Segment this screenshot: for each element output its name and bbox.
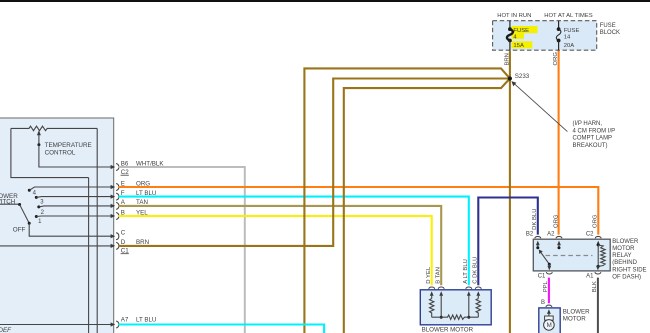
svg-text:FUSE: FUSE — [564, 28, 580, 34]
svg-text:COMPT LAMP: COMPT LAMP — [573, 136, 613, 142]
motor brush cap — [545, 316, 554, 320]
svg-text:BLOCK: BLOCK — [600, 30, 620, 36]
relay switch arm with arrow — [540, 252, 549, 265]
resistor bus with middle element — [432, 315, 479, 319]
wire TAN from A to resistor pin B — [118, 206, 441, 285]
connector name C2 — [121, 169, 130, 176]
svg-text:M: M — [547, 322, 552, 329]
relay pin C1 — [538, 264, 553, 279]
svg-text:C2: C2 — [586, 232, 594, 238]
svg-text:A2: A2 — [547, 232, 555, 238]
HVAC control assembly box — [0, 118, 114, 333]
wire position 4 to pin E — [29, 187, 113, 190]
svg-text:MOTOR: MOTOR — [563, 316, 586, 323]
svg-text:DK BLU: DK BLU — [532, 209, 538, 230]
svg-text:PPL: PPL — [543, 280, 549, 292]
node switch arm contact — [28, 222, 31, 225]
svg-text:OF DASH): OF DASH) — [612, 274, 641, 280]
top border bar — [0, 0, 650, 2]
svg-text:TEMPERATURE: TEMPERATURE — [45, 142, 92, 149]
svg-text:FUSE: FUSE — [600, 23, 616, 29]
svg-text:BLOWER: BLOWER — [563, 309, 590, 316]
wire wiper to pin B6 — [39, 145, 113, 167]
wire ORG from fuse 14 to relay A2 — [558, 50, 560, 234]
wire switch common feed — [0, 203, 20, 205]
svg-text:BRN: BRN — [504, 53, 510, 65]
svg-text:BREAKOUT): BREAKOUT) — [573, 143, 608, 149]
svg-text:A1: A1 — [586, 274, 594, 280]
relay pin A1 — [586, 266, 601, 280]
node position 2 — [37, 205, 40, 208]
node position 1 — [35, 215, 38, 218]
svg-text:ORG: ORG — [553, 52, 559, 66]
connector name C1 — [121, 247, 130, 254]
svg-text:A7: A7 — [121, 317, 129, 324]
svg-text:OFF: OFF — [13, 227, 26, 234]
blower switch arm — [20, 205, 30, 224]
svg-text:ORG: ORG — [593, 214, 599, 228]
blower motor resistors box — [420, 290, 491, 325]
svg-text:DEF: DEF — [0, 327, 12, 333]
svg-text:BLOWER: BLOWER — [612, 239, 639, 245]
resistor pin C — [475, 287, 481, 299]
wire internal feed to pin D — [0, 245, 113, 247]
wire position 2 to pin A — [39, 206, 113, 207]
wire YEL from B to resistor pin D — [118, 216, 431, 285]
wire LT BLU from A7 down off bottom — [118, 325, 324, 333]
resistor pin A — [466, 287, 472, 317]
svg-text:BLOWER MOTOR: BLOWER MOTOR — [422, 327, 474, 333]
relay pin A2 — [547, 232, 562, 250]
wire WHT/BLK from B6 — [118, 167, 244, 333]
svg-text:20A: 20A — [564, 43, 575, 49]
svg-text:C DK BLU: C DK BLU — [473, 257, 479, 284]
svg-text:B2: B2 — [526, 232, 534, 238]
resistor element left — [430, 299, 434, 318]
motor M — [544, 320, 555, 331]
svg-text:4 CM FROM I/P: 4 CM FROM I/P — [573, 128, 616, 134]
node position 4 — [28, 189, 31, 192]
highlight behind FUSE 4 — [512, 26, 538, 33]
svg-text:ORG: ORG — [553, 214, 559, 228]
svg-text:A LT BLU: A LT BLU — [463, 259, 469, 284]
relay pin C2 — [586, 232, 601, 246]
node position 3 — [35, 196, 38, 199]
svg-text:LT BLU: LT BLU — [136, 317, 156, 324]
node B to bus — [440, 316, 443, 319]
label BLOWER MOTOR RELAY (BEHIND RIGHT SIDE OF DASH) — [612, 239, 646, 281]
wire position 1 to pin B — [36, 215, 113, 218]
wire internal DEF feed to pin A7 — [0, 324, 113, 326]
connector C2 pin A — [111, 199, 148, 209]
wire BRN branch upper from S233 down off bottom — [304, 68, 510, 333]
resistor pin B — [438, 287, 444, 317]
connector C2 pin B6 — [111, 160, 165, 170]
connector C2 pin B — [111, 209, 149, 219]
fuse 4 15A — [507, 21, 529, 51]
svg-text:14: 14 — [564, 34, 571, 40]
motor pin B — [541, 300, 552, 316]
temperature control potentiometer R (zigzag) — [11, 126, 97, 131]
fuse 14 20A — [556, 21, 579, 51]
relay actuation dashed link — [546, 255, 593, 257]
blower motor relay box — [533, 239, 610, 271]
relay coil — [597, 244, 600, 247]
svg-text:D YEL: D YEL — [426, 266, 432, 284]
resistor pin D — [429, 287, 435, 299]
callout arrow to S233 — [513, 83, 567, 132]
svg-text:MOTOR: MOTOR — [612, 246, 635, 252]
svg-text:(I/P HARN,: (I/P HARN, — [573, 121, 603, 127]
svg-text:BLK: BLK — [592, 281, 598, 292]
svg-text:FUSE: FUSE — [513, 28, 529, 34]
svg-text:RELAY: RELAY — [612, 253, 631, 259]
fuse block box — [493, 21, 597, 51]
wire BRN branch lower from S233 down off bottom — [344, 79, 510, 333]
wire BRN from D up to splice S233 — [118, 79, 510, 246]
junction dot on wiper — [37, 143, 40, 146]
svg-text:(BEHIND: (BEHIND — [612, 260, 637, 266]
svg-text:15A: 15A — [513, 43, 524, 49]
relay switch contact — [536, 246, 539, 249]
svg-text:CONTROL: CONTROL — [45, 149, 76, 156]
connector C2 pin E — [111, 180, 151, 190]
node A to bus — [467, 316, 470, 319]
svg-text:B TAN: B TAN — [435, 267, 441, 284]
svg-text:C1: C1 — [538, 274, 546, 280]
wire vertical from pot-left down off bottom — [88, 178, 90, 333]
connector C1 pin D — [111, 239, 149, 249]
pot wiper arrow — [38, 133, 40, 145]
svg-text:HOT AT AL TIMES: HOT AT AL TIMES — [544, 13, 593, 19]
svg-text:RIGHT SIDE: RIGHT SIDE — [612, 267, 646, 273]
wire BRN main from fuse 4 through S233 down off bottom — [509, 50, 511, 333]
wire position 3 to pin F — [36, 196, 113, 199]
wire DK BLU resistor pin C to relay B2 — [478, 198, 538, 286]
wire LT BLU from F to resistor pin A — [118, 197, 468, 286]
node switch common — [18, 203, 21, 206]
connector C1 pin C — [111, 230, 126, 240]
resistor element right — [476, 299, 480, 318]
wire PPL relay C1 to blower motor B — [548, 278, 550, 304]
wire pot right terminal down off bottom — [96, 128, 98, 333]
splice S233 — [508, 76, 512, 80]
svg-text:HOT IN RUN: HOT IN RUN — [497, 13, 531, 19]
connector C2 pin F — [111, 190, 157, 200]
connector pin A7 — [111, 317, 157, 329]
wire ORG from E to relay C2 — [118, 187, 598, 235]
wire switch arm output to pin C — [29, 223, 113, 236]
svg-text:S233: S233 — [515, 73, 530, 80]
relay pin B2 — [526, 232, 541, 248]
svg-text:B: B — [541, 300, 545, 306]
blower motor box — [539, 308, 560, 333]
svg-text:C: C — [121, 230, 126, 237]
wire BLK from relay A1 down off bottom — [597, 278, 599, 333]
wire pot left terminal — [11, 128, 89, 177]
